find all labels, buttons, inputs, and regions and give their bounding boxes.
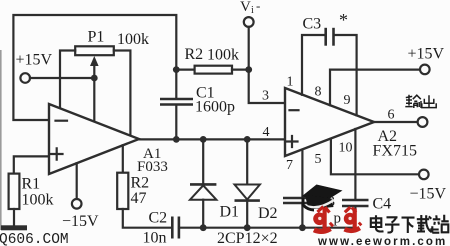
resistor R2 100k xyxy=(176,68,194,70)
resistor R2 47 xyxy=(122,145,124,172)
svg-text:D1: D1 xyxy=(220,204,240,221)
svg-text:R2: R2 xyxy=(131,175,150,192)
svg-text:5: 5 xyxy=(315,152,322,167)
wire bottom bus xyxy=(203,227,355,229)
diode D1 xyxy=(202,139,204,183)
node D2 top xyxy=(244,136,251,143)
wire pin10 to C4 xyxy=(354,129,356,199)
svg-text:R1: R1 xyxy=(22,176,41,193)
wire P1 left terminal to A1 xyxy=(60,51,75,108)
wire +15V to wiper xyxy=(30,77,94,79)
node D1 bus xyxy=(200,224,207,231)
node D1 top xyxy=(200,136,207,143)
svg-text:R2: R2 xyxy=(185,46,204,63)
svg-text:2CP12×2: 2CP12×2 xyxy=(217,230,278,246)
wire C2 to bus xyxy=(179,227,203,229)
wire A1 negative supply xyxy=(76,163,78,199)
wire pin8 +15V xyxy=(330,70,420,106)
ground xyxy=(1,225,27,230)
svg-text:p: p xyxy=(334,211,342,227)
svg-text:www.eeworm.com: www.eeworm.com xyxy=(317,236,447,246)
svg-text:3: 3 xyxy=(262,89,269,104)
wire noninverting input to R1 xyxy=(14,156,49,173)
terminal output xyxy=(418,117,428,127)
op-amp A2 xyxy=(285,88,374,156)
wire R2-47 to C2 xyxy=(123,209,171,228)
diode D2 xyxy=(246,139,248,184)
svg-text:9: 9 xyxy=(344,93,351,108)
node feedback R2 C1 junction xyxy=(173,66,180,73)
wire pin5 -15V xyxy=(331,139,419,175)
wire pin7 to C5 xyxy=(301,150,303,197)
svg-text:F033: F033 xyxy=(137,159,168,175)
svg-text:C4: C4 xyxy=(373,196,392,213)
svg-text:D2: D2 xyxy=(258,205,278,222)
svg-text:47: 47 xyxy=(131,190,147,207)
svg-text:1: 1 xyxy=(287,75,294,90)
svg-text:Q606.COM: Q606.COM xyxy=(0,232,69,246)
capacitor C5 hidden xyxy=(283,197,320,200)
svg-text:+15V: +15V xyxy=(408,46,445,63)
svg-text:8: 8 xyxy=(315,85,322,100)
svg-text:1600p: 1600p xyxy=(195,99,235,116)
svg-text:-: - xyxy=(256,0,260,13)
terminal -15V right xyxy=(419,170,429,180)
svg-text:10: 10 xyxy=(339,141,353,156)
wire A2 output xyxy=(374,121,418,123)
svg-text:*: * xyxy=(339,10,348,30)
P1 wiper arrow xyxy=(90,56,99,66)
svg-text:C3: C3 xyxy=(303,16,322,33)
wire P1 right terminal to A1 output xyxy=(114,51,131,136)
svg-text:6: 6 xyxy=(388,108,395,123)
wire R1 to ground xyxy=(13,209,15,225)
svg-text:−15V: −15V xyxy=(62,213,99,230)
terminal -15V left xyxy=(72,199,82,209)
svg-text:100k: 100k xyxy=(22,192,54,209)
node C1 output junction xyxy=(173,136,180,143)
svg-text:4: 4 xyxy=(263,125,270,140)
svg-text:100k: 100k xyxy=(117,31,149,48)
capacitor C3 xyxy=(302,35,325,95)
node C5 bus xyxy=(299,224,306,231)
label output chinese xyxy=(405,95,436,108)
watermark site name chinese xyxy=(371,215,449,233)
logo red bug 2 xyxy=(344,207,362,231)
svg-text:100k: 100k xyxy=(207,47,239,64)
svg-text:−15V: −15V xyxy=(410,186,447,203)
capacitor C1 xyxy=(175,70,177,98)
logo graduation cap xyxy=(302,185,343,201)
svg-text:C2: C2 xyxy=(149,210,168,227)
wire A1 output bus xyxy=(139,138,285,140)
terminal +15V left xyxy=(20,73,30,83)
terminal +15V right xyxy=(420,65,430,75)
svg-text:i: i xyxy=(251,5,254,16)
node D2 bus xyxy=(244,224,251,231)
wire feedback box top and left xyxy=(13,15,176,120)
svg-text:+15V: +15V xyxy=(16,52,53,69)
potentiometer P1 xyxy=(75,46,114,55)
svg-text:FX715: FX715 xyxy=(373,143,417,160)
scan edge artifact xyxy=(0,50,2,230)
svg-text:V: V xyxy=(240,0,251,15)
node wiper junction xyxy=(91,75,98,82)
capacitor C2 xyxy=(171,217,174,239)
wire Vi to pin3 xyxy=(249,27,285,103)
capacitor C4 xyxy=(342,199,369,202)
node Vi R2 junction xyxy=(245,66,252,73)
resistor R1 xyxy=(9,174,20,209)
svg-text:P1: P1 xyxy=(88,29,105,46)
terminal Vi input xyxy=(244,17,254,27)
logo red bug 1 xyxy=(313,207,333,232)
op-amp A1 xyxy=(49,104,139,174)
svg-text:10n: 10n xyxy=(143,230,167,246)
svg-text:7: 7 xyxy=(286,158,293,173)
